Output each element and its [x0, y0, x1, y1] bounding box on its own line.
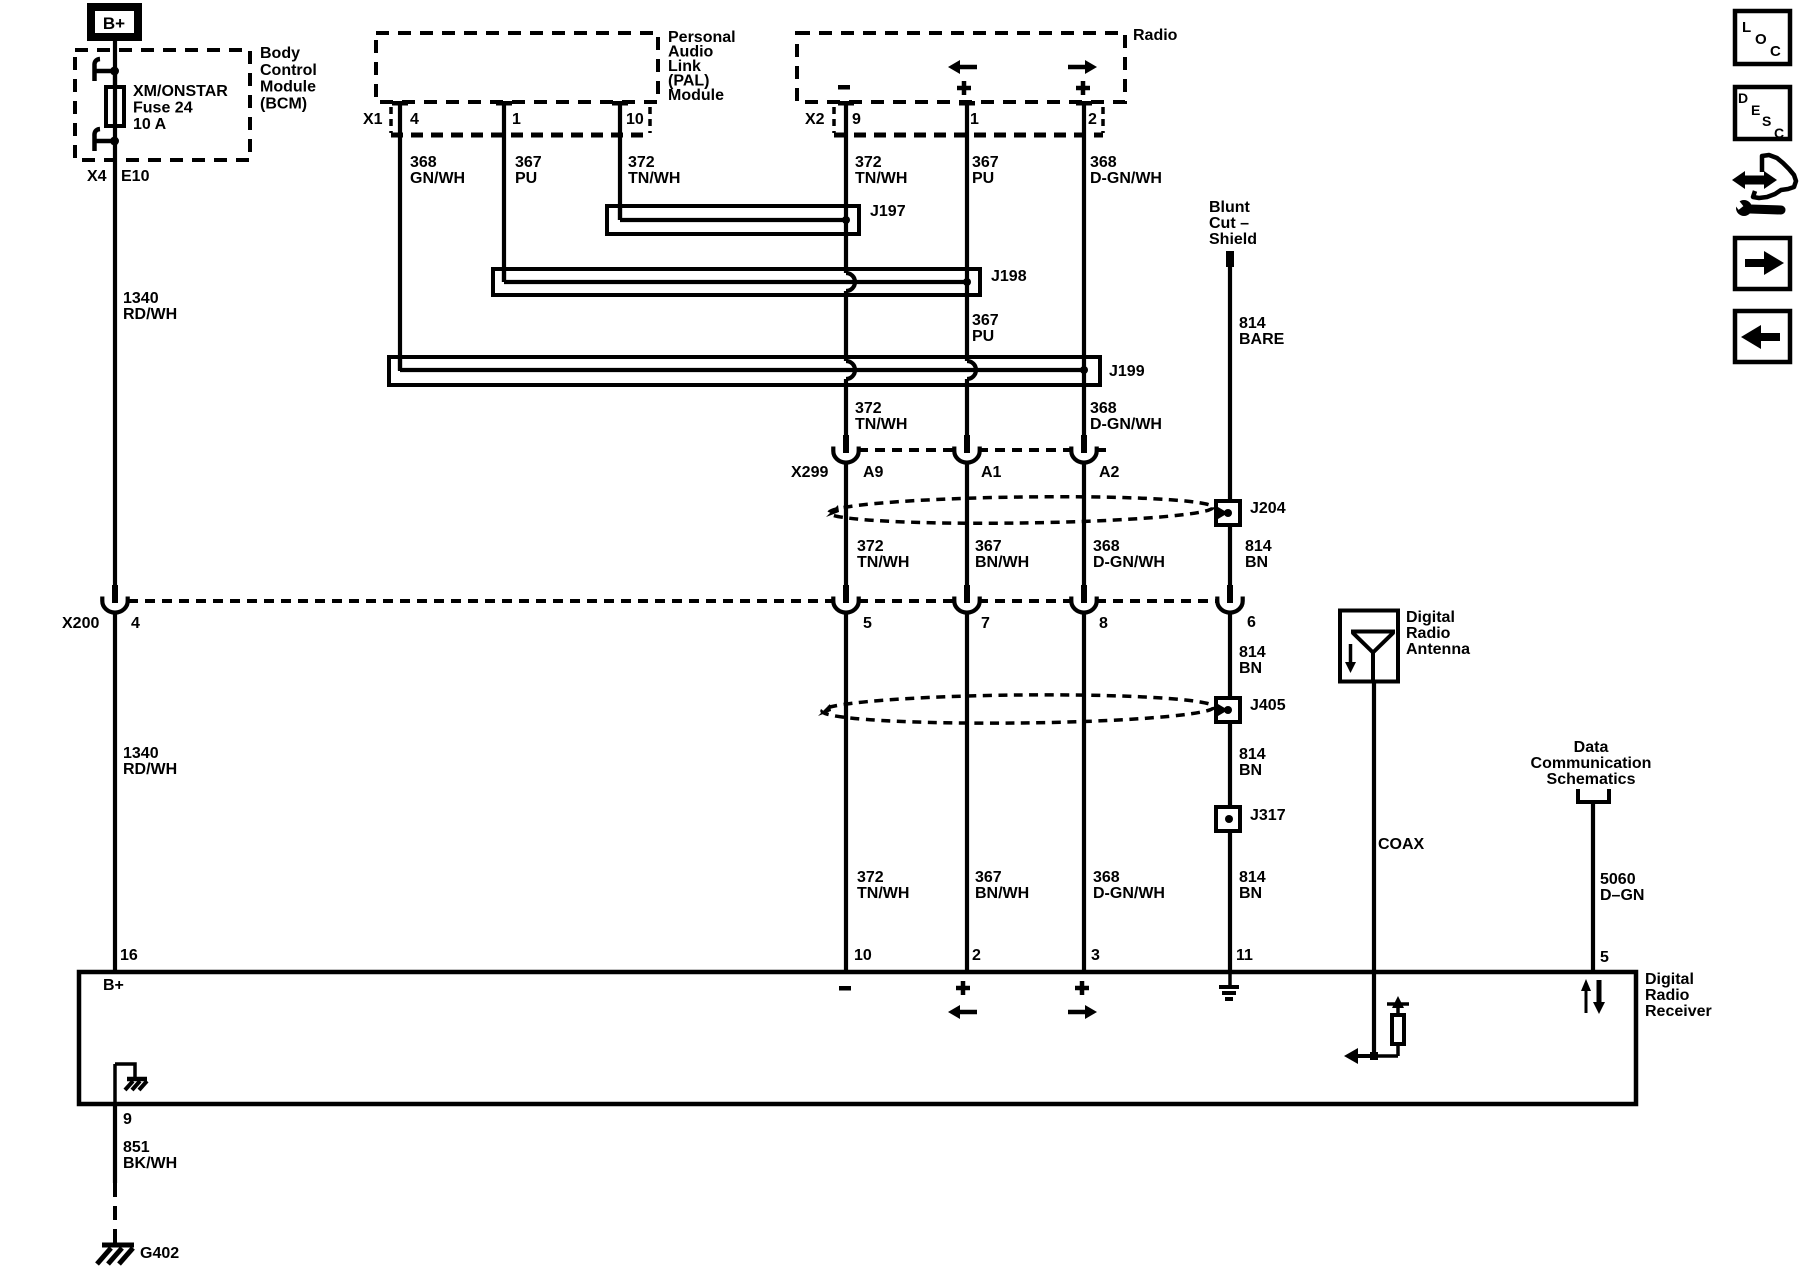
svg-text:368: 368 — [1090, 400, 1117, 417]
svg-text:D-GN/WH: D-GN/WH — [1093, 554, 1165, 571]
svg-text:PU: PU — [972, 170, 994, 187]
blunt cut wire end terminal — [1226, 251, 1234, 267]
svg-text:X200: X200 — [62, 615, 99, 632]
PAL module name label — [668, 29, 736, 104]
wire 367 PU radio-1 down through splices — [965, 105, 969, 435]
svg-text:RD/WH: RD/WH — [123, 761, 177, 778]
svg-text:Radio: Radio — [1133, 27, 1178, 44]
coax wire label — [1378, 836, 1425, 853]
wire 367 BN/WH X299-A1 to X200-7 — [965, 461, 969, 586]
wire label 368 D-GN/WH (to receiver 3) — [1093, 869, 1165, 902]
svg-text:368: 368 — [1090, 154, 1117, 171]
svg-text:TN/WH: TN/WH — [855, 416, 907, 433]
digital radio antenna label — [1406, 609, 1470, 658]
wire B+ to fuse terminal — [113, 41, 117, 87]
splice J317 box — [1216, 807, 1240, 831]
connector X299 pin A1 — [954, 435, 979, 463]
connector X200 pin 7 — [954, 585, 979, 613]
wire 1340 RD/WH BCM to X200 — [113, 137, 117, 586]
svg-text:367: 367 — [975, 869, 1002, 886]
connector X200 pin 4 — [102, 585, 127, 613]
svg-text:367: 367 — [975, 538, 1002, 555]
PAL pin 4 terminal — [392, 101, 408, 106]
connector X200 pin 8 — [1071, 585, 1096, 613]
svg-text:TN/WH: TN/WH — [855, 170, 907, 187]
connector X299 pin A2 — [1071, 435, 1096, 463]
ground G402 label — [140, 1245, 179, 1262]
connector X2 label — [805, 111, 825, 128]
svg-text:814: 814 — [1245, 538, 1272, 555]
data communication off-page bracket — [1578, 789, 1609, 802]
wire label 368 D-GN/WH (radio) — [1090, 154, 1162, 187]
svg-text:TN/WH: TN/WH — [857, 554, 909, 571]
svg-text:Control: Control — [260, 62, 317, 79]
connector X4 pin E10 labels — [87, 168, 150, 185]
wire label 1340 RD/WH (lower) — [123, 745, 177, 778]
svg-text:5060: 5060 — [1600, 871, 1636, 888]
radio speaker minus symbol — [838, 85, 850, 90]
svg-text:Digital: Digital — [1645, 971, 1694, 988]
shield twisted pair ellipse (to J405) — [818, 693, 1214, 725]
wire 368 D-GN/WH radio-2 to X299 — [1082, 105, 1086, 435]
splice J204 box — [1216, 501, 1240, 525]
receiver internal chassis ground (pin 9) — [115, 1064, 147, 1102]
svg-text:D-GN/WH: D-GN/WH — [1090, 416, 1162, 433]
legend LOC icon — [1735, 11, 1790, 64]
PAL pin 10 terminal — [612, 101, 628, 106]
wire hop of 372 TN/WH over J199 bus — [846, 361, 855, 379]
wire 368 GN/WH PAL-4 to splice J199 — [398, 105, 402, 371]
receiver B+ pin label — [103, 977, 124, 994]
svg-text:D: D — [1738, 90, 1748, 106]
wire 372 TN/WH X200-5 to receiver pin 10 — [844, 611, 848, 970]
splice J197 bus wire — [620, 208, 850, 224]
coax wire inside receiver — [1372, 972, 1376, 1056]
X200 pin 5 label — [863, 615, 872, 632]
splice J317 joint — [1225, 815, 1233, 823]
svg-text:RD/WH: RD/WH — [123, 306, 177, 323]
splice J204 shield arrow and joint — [1218, 507, 1232, 519]
wire label 814 BARE — [1239, 315, 1285, 348]
svg-text:L: L — [1742, 19, 1751, 36]
svg-text:851: 851 — [123, 1139, 150, 1156]
connector X299 pin A9 — [833, 435, 858, 463]
radio rear speaker arrow right — [1068, 60, 1097, 74]
wire label 367 BN/WH (to X200-7) — [975, 538, 1029, 571]
svg-text:Module: Module — [668, 87, 724, 104]
wire label 814 BN (below J405) — [1239, 746, 1266, 779]
legend DESC icon — [1735, 87, 1790, 141]
svg-text:Radio: Radio — [1645, 987, 1690, 1004]
wire 1340 RD/WH X200 to receiver pin 16 — [113, 611, 117, 970]
svg-text:G402: G402 — [140, 1245, 179, 1262]
svg-text:814: 814 — [1239, 644, 1266, 661]
receiver rear audio plus symbol — [1075, 981, 1089, 995]
svg-text:Radio: Radio — [1406, 625, 1451, 642]
wire 814 BARE blunt cut to J204 — [1228, 266, 1232, 501]
svg-text:BN/WH: BN/WH — [975, 885, 1029, 902]
receiver pin 5 label — [1600, 949, 1609, 966]
connector X200 dashed body line — [128, 599, 1219, 603]
wire 851 BK/WH receiver to G402 — [113, 1102, 117, 1183]
fuse value label — [133, 83, 228, 133]
svg-text:9: 9 — [123, 1111, 132, 1128]
PAL pin 1 terminal — [496, 101, 512, 106]
wire 368 D-GN/WH X200-8 to receiver pin 3 — [1082, 611, 1086, 970]
wire 814 BN X200-6 to J405 — [1228, 611, 1232, 698]
data link up arrow — [1581, 979, 1591, 1013]
BCM name label — [260, 45, 317, 112]
svg-text:(BCM): (BCM) — [260, 95, 307, 112]
wire label 814 BN (above X200-6) — [1245, 538, 1272, 571]
svg-text:Receiver: Receiver — [1645, 1003, 1712, 1020]
wire 5060 D-GN to receiver pin 5 — [1591, 802, 1595, 970]
connector X299 dashed body line — [858, 448, 1106, 452]
wire hop of 372 TN/WH over J198 bus — [846, 273, 855, 291]
splice J199 bus wire — [400, 359, 1088, 374]
svg-text:BN: BN — [1239, 762, 1262, 779]
svg-text:372: 372 — [855, 400, 882, 417]
svg-text:J204: J204 — [1250, 500, 1286, 517]
svg-text:1: 1 — [512, 111, 521, 128]
svg-text:D-GN/WH: D-GN/WH — [1090, 170, 1162, 187]
pin A2 label — [1099, 464, 1120, 481]
svg-text:16: 16 — [120, 947, 138, 964]
X200 pin 7 label — [981, 615, 990, 632]
radio pin 1 terminal — [959, 101, 975, 106]
connector X299 label — [791, 464, 828, 481]
receiver pin 3 label — [1091, 947, 1100, 964]
svg-text:E10: E10 — [121, 168, 150, 185]
svg-text:Schematics: Schematics — [1547, 771, 1636, 788]
svg-text:368: 368 — [410, 154, 437, 171]
svg-text:A1: A1 — [981, 464, 1002, 481]
X200 pin 8 label — [1099, 615, 1108, 632]
svg-text:Body: Body — [260, 45, 300, 62]
PAL connector X1 outline — [391, 107, 650, 135]
connector X200 pin 5 — [833, 585, 858, 613]
radio front speaker arrow left — [948, 60, 977, 74]
svg-text:J199: J199 — [1109, 363, 1145, 380]
antenna input junction — [1370, 1052, 1378, 1060]
svg-text:BK/WH: BK/WH — [123, 1155, 177, 1172]
splice J199 box — [389, 357, 1100, 385]
splice J405 box — [1216, 698, 1240, 722]
receiver pin 16 label — [120, 947, 138, 964]
wire 814 BN J405 to J317 — [1228, 722, 1232, 807]
data link down arrow — [1593, 980, 1605, 1014]
svg-text:PU: PU — [515, 170, 537, 187]
wire label 814 BN (below J204) — [1239, 644, 1266, 677]
battery feed B+ terminal — [91, 7, 138, 37]
svg-text:2: 2 — [1088, 111, 1097, 128]
splice J405 shield arrow and joint — [1218, 704, 1232, 716]
svg-text:5: 5 — [863, 615, 872, 632]
digital radio antenna box — [1340, 611, 1398, 682]
svg-text:11: 11 — [1236, 947, 1253, 964]
coax wire antenna to receiver — [1372, 683, 1376, 970]
splice J405 label — [1250, 697, 1286, 714]
receiver audio minus symbol — [839, 986, 851, 991]
svg-text:Cut –: Cut – — [1209, 215, 1249, 232]
svg-text:814: 814 — [1239, 746, 1266, 763]
wire label 372 TN/WH (to receiver 10) — [857, 869, 909, 902]
wire 368 D-GN/WH X299-A2 to X200-8 — [1082, 461, 1086, 586]
wire 372 TN/WH PAL-10 to splice J197 — [618, 105, 622, 220]
receiver front audio arrow left — [948, 1005, 977, 1019]
svg-text:372: 372 — [857, 538, 884, 555]
wire label 372 TN/WH (below J199) — [855, 400, 907, 433]
receiver pin 9 label — [123, 1111, 132, 1128]
antenna load resistor — [1376, 1004, 1404, 1056]
connector X200 pin 6 — [1217, 585, 1242, 613]
ground G402 symbol — [97, 1245, 134, 1264]
svg-text:X299: X299 — [791, 464, 828, 481]
wire 372 TN/WH X299-A9 to X200-5 — [844, 461, 848, 586]
legend repair tools icon — [1732, 155, 1796, 216]
wire label 368 D-GN/WH (below J199) — [1090, 400, 1162, 433]
svg-text:4: 4 — [410, 111, 419, 128]
receiver shield ground symbol (pin 11) — [1219, 972, 1239, 1001]
fuse F24 (XM/ONSTAR Fuse 24 10 A) — [106, 75, 124, 137]
wire label 367 PU (between J198 and J199) — [972, 312, 999, 345]
svg-text:C: C — [1770, 43, 1781, 60]
PAL pin 4 number label — [410, 111, 419, 128]
X200 pin 4 label — [62, 615, 140, 632]
wire 367 PU PAL-1 to splice J198 — [502, 105, 506, 282]
svg-text:372: 372 — [857, 869, 884, 886]
svg-text:10: 10 — [626, 111, 644, 128]
svg-text:J317: J317 — [1250, 807, 1286, 824]
radio dashed box — [797, 33, 1125, 102]
splice J197 box — [607, 206, 859, 234]
svg-text:COAX: COAX — [1378, 836, 1425, 853]
wire 814 BN J317 to receiver pin 11 — [1228, 831, 1232, 970]
svg-text:10 A: 10 A — [133, 116, 167, 133]
svg-text:372: 372 — [855, 154, 882, 171]
shield twisted pair ellipse (to J204) — [826, 494, 1213, 525]
radio front speaker plus symbol — [957, 81, 971, 95]
svg-text:B+: B+ — [103, 977, 124, 994]
data communication schematics label — [1531, 739, 1652, 788]
personal audio link (PAL) module dashed box — [376, 33, 658, 102]
svg-text:814: 814 — [1239, 869, 1266, 886]
svg-text:X1: X1 — [363, 111, 383, 128]
svg-text:J405: J405 — [1250, 697, 1286, 714]
svg-text:4: 4 — [131, 615, 140, 632]
wire 851 BK/WH dashed segment — [113, 1183, 117, 1244]
PAL pin 1 number label — [512, 111, 521, 128]
radio pin 2 number label — [1088, 111, 1097, 128]
svg-text:372: 372 — [628, 154, 655, 171]
svg-text:E: E — [1751, 102, 1760, 118]
splice J199 label — [1109, 363, 1145, 380]
X200 pin 6 label — [1247, 614, 1256, 631]
wire label 368 D-GN/WH (to X200-8) — [1093, 538, 1165, 571]
antenna symbol — [1345, 632, 1395, 684]
svg-text:1340: 1340 — [123, 290, 159, 307]
splice J204 label — [1250, 500, 1286, 517]
wire label 368 GN/WH — [410, 154, 465, 187]
svg-text:C: C — [1774, 125, 1784, 141]
svg-text:BN: BN — [1239, 660, 1262, 677]
svg-text:Fuse 24: Fuse 24 — [133, 100, 193, 117]
svg-text:B+: B+ — [103, 14, 125, 33]
svg-text:6: 6 — [1247, 614, 1256, 631]
svg-text:2: 2 — [972, 947, 981, 964]
svg-text:J197: J197 — [870, 203, 906, 220]
svg-text:BN/WH: BN/WH — [975, 554, 1029, 571]
splice J198 box — [493, 269, 980, 295]
svg-text:BN: BN — [1239, 885, 1262, 902]
splice J198 bus wire — [504, 271, 971, 286]
receiver front audio plus symbol — [956, 981, 970, 995]
svg-text:Shield: Shield — [1209, 231, 1257, 248]
pin A9 label — [863, 464, 884, 481]
svg-text:Antenna: Antenna — [1406, 641, 1470, 658]
svg-text:7: 7 — [981, 615, 990, 632]
svg-text:GN/WH: GN/WH — [410, 170, 465, 187]
receiver pin 2 label — [972, 947, 981, 964]
svg-text:O: O — [1755, 31, 1767, 48]
wire 367 BN/WH X200-7 to receiver pin 2 — [965, 611, 969, 970]
wire hop of 367 PU over J199 bus — [967, 361, 976, 379]
svg-text:D–GN: D–GN — [1600, 887, 1644, 904]
svg-text:1340: 1340 — [123, 745, 159, 762]
radio pin 2 terminal — [1076, 101, 1092, 106]
svg-text:368: 368 — [1093, 869, 1120, 886]
svg-text:PU: PU — [972, 328, 994, 345]
svg-text:TN/WH: TN/WH — [628, 170, 680, 187]
BCM upper fuse terminal — [94, 59, 119, 81]
wire label 372 TN/WH (PAL) — [628, 154, 680, 187]
receiver rear audio arrow right — [1068, 1005, 1097, 1019]
legend back arrow icon — [1735, 311, 1790, 362]
resistor supply bar and arrow — [1387, 996, 1409, 1008]
wire label 372 TN/WH (radio) — [855, 154, 907, 187]
wire label 367 BN/WH (to receiver 2) — [975, 869, 1029, 902]
wire label 367 PU (radio) — [972, 154, 999, 187]
svg-text:D-GN/WH: D-GN/WH — [1093, 885, 1165, 902]
svg-text:S: S — [1762, 113, 1771, 129]
wire label 1340 RD/WH (upper) — [123, 290, 177, 323]
svg-text:Data: Data — [1574, 739, 1609, 756]
svg-text:A2: A2 — [1099, 464, 1120, 481]
connector X1 label — [363, 111, 383, 128]
svg-text:Communication: Communication — [1531, 755, 1652, 772]
receiver pin 10 label — [854, 947, 872, 964]
svg-text:5: 5 — [1600, 949, 1609, 966]
body control module (BCM) dashed box — [75, 50, 250, 160]
svg-text:Module: Module — [260, 79, 316, 96]
BCM lower fuse terminal — [94, 129, 119, 151]
splice J198 label — [991, 268, 1027, 285]
svg-text:X4: X4 — [87, 168, 107, 185]
blunt cut shield label — [1209, 199, 1257, 248]
svg-text:9: 9 — [852, 111, 861, 128]
svg-text:J198: J198 — [991, 268, 1027, 285]
wire 372 TN/WH radio-9 down through splices — [844, 105, 848, 435]
digital radio receiver name label — [1645, 971, 1712, 1020]
radio pin 9 terminal — [838, 101, 854, 106]
legend forward arrow icon — [1735, 238, 1790, 289]
antenna signal arrow — [1344, 1048, 1374, 1064]
svg-text:BARE: BARE — [1239, 331, 1285, 348]
pin A1 label — [981, 464, 1002, 481]
radio rear speaker plus symbol — [1076, 81, 1090, 95]
svg-text:X2: X2 — [805, 111, 825, 128]
wire label 372 TN/WH (to X200-5) — [857, 538, 909, 571]
PAL pin 10 number label — [626, 111, 644, 128]
svg-text:BN: BN — [1245, 554, 1268, 571]
svg-text:TN/WH: TN/WH — [857, 885, 909, 902]
svg-text:368: 368 — [1093, 538, 1120, 555]
wire label 851 BK/WH — [123, 1139, 177, 1172]
svg-text:Blunt: Blunt — [1209, 199, 1251, 216]
svg-text:367: 367 — [972, 154, 999, 171]
wire 814 through J204 to X200-6 — [1228, 501, 1232, 586]
splice J197 label — [870, 203, 906, 220]
svg-text:Digital: Digital — [1406, 609, 1455, 626]
splice J317 label — [1250, 807, 1286, 824]
wire label 5060 D-GN — [1600, 871, 1644, 904]
svg-text:1: 1 — [970, 111, 979, 128]
radio connector X2 outline — [834, 107, 1103, 135]
wire label 367 PU — [515, 154, 542, 187]
svg-text:8: 8 — [1099, 615, 1108, 632]
radio pin 1 number label — [970, 111, 979, 128]
svg-text:3: 3 — [1091, 947, 1100, 964]
digital radio receiver box — [79, 972, 1636, 1104]
svg-text:10: 10 — [854, 947, 872, 964]
svg-text:XM/ONSTAR: XM/ONSTAR — [133, 83, 228, 100]
svg-text:A9: A9 — [863, 464, 884, 481]
svg-text:367: 367 — [515, 154, 542, 171]
receiver pin 11 label — [1236, 947, 1253, 964]
wire label 814 BN (below J317) — [1239, 869, 1266, 902]
radio name label — [1133, 27, 1178, 44]
radio pin 9 number label — [852, 111, 861, 128]
svg-text:367: 367 — [972, 312, 999, 329]
svg-text:814: 814 — [1239, 315, 1266, 332]
